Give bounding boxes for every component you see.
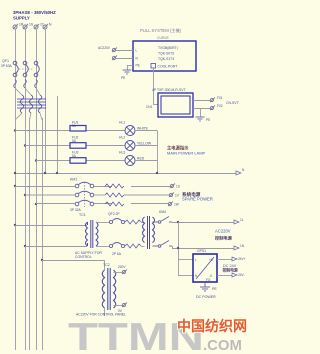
svg-text:QF2 2P: QF2 2P: [108, 212, 120, 216]
lamp HL2: [125, 141, 135, 151]
svg-text:DC POWER: DC POWER: [196, 295, 216, 299]
svg-text:4P TXP-300-M-R-SVT: 4P TXP-300-M-R-SVT: [152, 88, 186, 92]
svg-text:1W: 1W: [174, 203, 179, 207]
resistor row bottom: [125, 244, 141, 248]
svg-text:TQK-S173: TQK-S173: [158, 57, 174, 61]
wire row1 to bus: [135, 130, 157, 132]
svg-text:中国纺织网: 中国纺织网: [177, 318, 247, 334]
reactor funnel wires in: [15, 88, 40, 95]
svg-text:TXGB(80RT): TXGB(80RT): [158, 46, 178, 50]
svg-text:24V-: 24V-: [238, 273, 245, 277]
wire dc feed vertical: [177, 221, 179, 223]
svg-text:CN-SVT: CN-SVT: [226, 101, 239, 105]
svg-text:PE: PE: [212, 287, 217, 291]
svg-text:DC 24V: DC 24V: [223, 264, 237, 268]
svg-text:PE: PE: [206, 118, 210, 122]
svg-text:PULL SYSTEM (主機): PULL SYSTEM (主機): [140, 27, 182, 34]
wire ac220 row1: [172, 222, 234, 224]
wire N vertical: [45, 29, 47, 173]
svg-text:HL2: HL2: [119, 136, 125, 140]
wire aux vertical a: [29, 118, 31, 350]
wire 24v minus: [217, 275, 232, 277]
svg-text:HL3: HL3: [119, 151, 125, 155]
svg-text:3P 32A: 3P 32A: [70, 208, 82, 212]
svg-text:3PHASE - 380V/50HZ: 3PHASE - 380V/50HZ: [13, 10, 56, 15]
terminal 1V: [169, 193, 174, 198]
node row3 tap: [35, 159, 37, 161]
wire TC2 feed: [41, 259, 43, 261]
svg-text:F02: F02: [217, 104, 223, 108]
svg-text:YELLOW: YELLOW: [137, 142, 152, 146]
wire ac220 row2: [172, 248, 234, 250]
wire box2 out1: [193, 100, 210, 102]
svg-text:2P 6A: 2P 6A: [112, 252, 122, 256]
svg-text:KM1: KM1: [70, 178, 77, 182]
wire lamp bus: [157, 131, 159, 174]
svg-text:220V: 220V: [118, 265, 126, 269]
wire row3: [36, 160, 125, 162]
svg-text:TC1: TC1: [79, 213, 86, 217]
svg-text:KM4: KM4: [159, 210, 166, 214]
cool port pin: [151, 64, 156, 69]
svg-text:1U: 1U: [176, 185, 181, 189]
terminal 1W: [168, 202, 173, 207]
fuse zigzag L1: [14, 80, 17, 88]
svg-text:PE: PE: [136, 64, 140, 68]
wire L2 vertical: [25, 29, 27, 350]
wire row2 to bus: [135, 145, 157, 147]
terminal 1U: [170, 184, 175, 189]
svg-text:TC2: TC2: [103, 263, 110, 267]
reactor core lines: [17, 99, 46, 108]
wire 24v plus: [217, 259, 232, 261]
reactor windings: [20, 95, 42, 113]
fuse zigzag L2: [24, 80, 27, 88]
svg-text:控制电源: 控制电源: [215, 235, 233, 242]
svg-text:SUPPLY: SUPPLY: [13, 16, 30, 21]
wire box2 ground stub: [200, 108, 202, 117]
lamp HL1: [125, 126, 135, 136]
svg-text:HL1: HL1: [119, 121, 125, 125]
node row2 tap: [24, 144, 26, 146]
wire box1 PE to ground: [127, 65, 133, 67]
terminal N: [43, 24, 48, 29]
resistor row top: [125, 220, 141, 224]
svg-text:FG: FG: [206, 278, 211, 282]
wire TC1 secondary top: [96, 222, 110, 224]
svg-text:1N: 1N: [240, 244, 245, 248]
svg-text:3P 63A: 3P 63A: [1, 64, 13, 68]
wire box2 out2: [193, 108, 210, 110]
svg-text:1L: 1L: [240, 218, 244, 222]
lamp HL3: [125, 156, 135, 166]
wire L1 vertical: [15, 29, 17, 350]
svg-text:PE: PE: [121, 76, 125, 80]
svg-text:GPS1: GPS1: [197, 249, 206, 253]
wire TC1 feed top: [14, 224, 16, 226]
svg-text:F01: F01: [217, 96, 223, 100]
node row1 tap: [14, 129, 16, 131]
svg-text:控制电源: 控制电源: [223, 268, 238, 273]
overload FR row3: [105, 202, 124, 206]
svg-text:CONTROL: CONTROL: [75, 255, 92, 259]
arrow ac row2: [234, 246, 239, 250]
overload FR row2: [105, 193, 124, 197]
wire TC2 sec top: [114, 272, 123, 274]
svg-text:AC220V: AC220V: [215, 229, 231, 234]
svg-text:MAIN POWER LAMP: MAIN POWER LAMP: [167, 151, 206, 156]
wire row3 to bus: [135, 160, 157, 162]
wire TC1 secondary bottom: [96, 246, 110, 248]
wire PE vertical: [57, 96, 59, 173]
wire spare row2: [24, 194, 26, 196]
arrow ac row1: [234, 220, 239, 224]
svg-text:L: L: [136, 49, 138, 53]
wire box1 N: [116, 58, 133, 60]
arrow neutral end: [236, 171, 241, 175]
wire spare row1: [14, 185, 16, 187]
svg-text:CURVE: CURVE: [157, 36, 170, 40]
terminal L2: [23, 24, 28, 29]
svg-text:1S: 1S: [29, 23, 34, 27]
fuse FU3: [70, 158, 86, 164]
wire TC2 sec bottom: [114, 305, 123, 307]
wire spare row3: [35, 203, 37, 205]
ground box2: [196, 117, 205, 121]
svg-text:CN1: CN1: [146, 105, 153, 109]
svg-text:.COM: .COM: [203, 337, 242, 354]
svg-text:TQK-S073: TQK-S073: [158, 52, 174, 56]
wire cool port down: [153, 68, 155, 104]
svg-text:QF1: QF1: [2, 59, 9, 63]
svg-text:WHITE: WHITE: [137, 127, 149, 131]
fuse FU2: [70, 143, 86, 149]
ground box1: [123, 70, 132, 74]
wire L3 vertical: [36, 29, 38, 350]
wire row1: [15, 130, 125, 132]
transformer TC3: [141, 216, 155, 249]
breaker QF1: [13, 61, 39, 77]
terminal L1: [13, 24, 18, 29]
node neutral joins: [14, 172, 16, 174]
wire aux vertical b: [42, 118, 44, 350]
overload FR row1: [105, 184, 124, 188]
wire neutral bus: [15, 173, 236, 175]
svg-text:SPARE POWER: SPARE POWER: [182, 197, 213, 202]
wire row2: [25, 145, 125, 147]
wire TC1 feed bottom: [24, 245, 26, 247]
wire box1 L: [116, 50, 133, 52]
svg-text:AC220V: AC220V: [98, 46, 111, 50]
svg-text:RED: RED: [137, 157, 145, 161]
terminal L3: [34, 24, 39, 29]
svg-text:AC220V FOR CONTROL PANEL: AC220V FOR CONTROL PANEL: [76, 313, 126, 317]
fuse zigzag L3: [35, 80, 38, 88]
svg-text:COOL PORT: COOL PORT: [158, 65, 178, 69]
svg-text:24V+: 24V+: [238, 257, 246, 261]
reactor funnel wires out: [15, 113, 42, 120]
wire TC2 primary bottom: [104, 308, 106, 316]
ground PE dc: [200, 282, 210, 291]
fuse FU1: [70, 126, 86, 132]
svg-text:L: L: [195, 258, 197, 262]
